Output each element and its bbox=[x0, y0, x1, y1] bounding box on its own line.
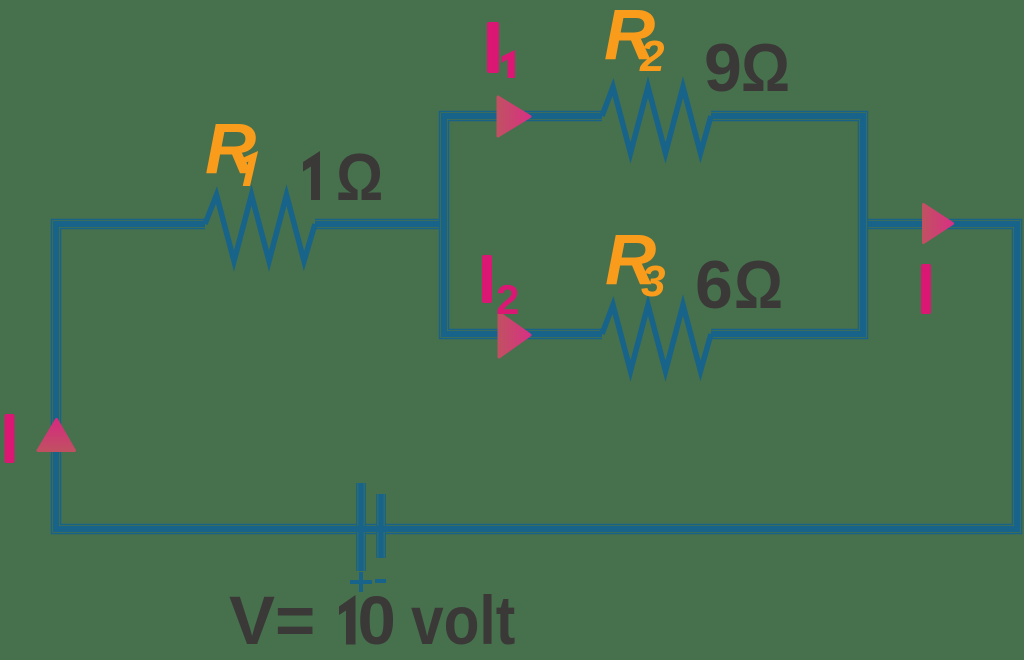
svg-text:Ω: Ω bbox=[734, 246, 783, 323]
svg-text:9: 9 bbox=[704, 30, 742, 106]
svg-text:2: 2 bbox=[496, 276, 519, 323]
svg-text:0: 0 bbox=[358, 582, 396, 659]
svg-text:6: 6 bbox=[695, 247, 733, 323]
svg-text:Ω: Ω bbox=[336, 141, 383, 215]
svg-text:3: 3 bbox=[641, 257, 665, 306]
svg-text:V=: V= bbox=[229, 582, 315, 659]
svg-text:2: 2 bbox=[639, 32, 665, 81]
svg-text:Ω: Ω bbox=[741, 29, 790, 106]
svg-text:volt: volt bbox=[411, 582, 515, 660]
